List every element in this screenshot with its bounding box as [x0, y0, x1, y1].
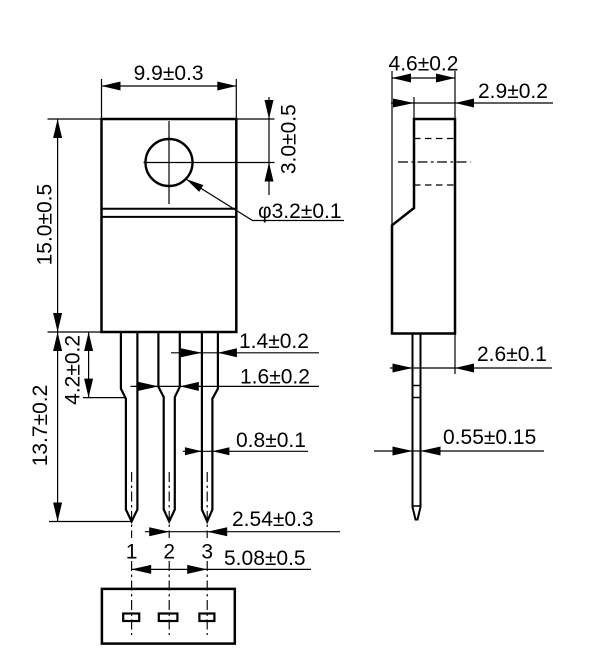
- svg-text:4.6±0.2: 4.6±0.2: [389, 53, 459, 76]
- svg-text:13.7±0.2: 13.7±0.2: [29, 385, 52, 467]
- svg-text:0.8±0.1: 0.8±0.1: [236, 429, 306, 452]
- svg-text:3: 3: [201, 541, 213, 564]
- svg-text:1: 1: [126, 541, 138, 564]
- svg-text:2.54±0.3: 2.54±0.3: [232, 508, 314, 531]
- svg-text:φ3.2±0.1: φ3.2±0.1: [258, 200, 342, 223]
- svg-text:2.9±0.2: 2.9±0.2: [478, 80, 548, 103]
- svg-text:5.08±0.5: 5.08±0.5: [224, 547, 306, 570]
- svg-text:9.9±0.3: 9.9±0.3: [134, 62, 204, 85]
- svg-text:2.6±0.1: 2.6±0.1: [477, 343, 547, 366]
- svg-text:0.55±0.15: 0.55±0.15: [443, 426, 536, 449]
- svg-text:3.0±0.5: 3.0±0.5: [278, 104, 301, 174]
- svg-text:1.4±0.2: 1.4±0.2: [239, 330, 309, 353]
- svg-text:4.2±0.2: 4.2±0.2: [62, 335, 85, 405]
- svg-text:15.0±0.5: 15.0±0.5: [34, 184, 57, 266]
- svg-text:1.6±0.2: 1.6±0.2: [240, 366, 310, 389]
- svg-text:2: 2: [163, 541, 175, 564]
